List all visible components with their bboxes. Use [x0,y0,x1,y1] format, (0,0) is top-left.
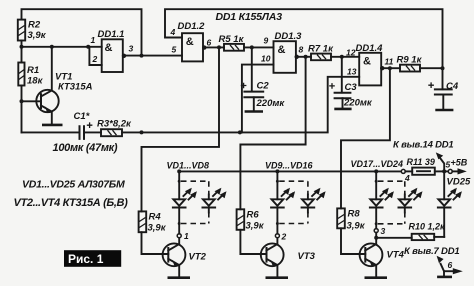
resistor R8 3,9к [337,208,366,231]
svg-text:2: 2 [92,54,98,64]
svg-text:3: 3 [129,44,134,54]
svg-text:8: 8 [299,45,304,55]
wire rail R3 to DD1.4 pin13 riser [122,77,359,133]
svg-text:9: 9 [264,36,269,46]
svg-text:1: 1 [91,35,96,45]
wire R7 to DD1.4 pin 12 [331,56,359,58]
svg-text:VT2: VT2 [189,252,207,263]
svg-text:R9 1к: R9 1к [397,54,423,65]
op-amp gate DD1.1 [98,29,127,72]
wire R8 bottom to VT4 base [341,228,365,254]
node VT1 base junction [20,99,24,103]
svg-text:11: 11 [385,57,394,67]
svg-text:К выв.7 DD1: К выв.7 DD1 [404,246,459,257]
LED group 1: VD1...VD8 [173,171,227,233]
wire R11 to +5V node [435,170,449,172]
svg-text:R6: R6 [247,210,260,221]
node R9 left junction [388,66,392,70]
capacitor C3 220мк [329,57,373,109]
resistor R1 [18,63,43,87]
wire stub to DD1.1 pin 2 [89,47,101,65]
svg-text:R7 1к: R7 1к [308,44,334,55]
svg-text:5: 5 [172,45,177,55]
op-amp gate DD1.4 [356,43,385,85]
wire LED bus [179,170,401,172]
svg-text:&: & [105,42,113,54]
node +5V junction [442,169,446,173]
svg-text:R11 39: R11 39 [407,157,435,167]
svg-text:3,9к: 3,9к [28,30,47,41]
wire top rail B: DD1.2 pin4 to C4 column [165,9,443,89]
resistor R7 1к [308,44,334,61]
transistor VT2 [163,238,207,278]
LED group 3: VD17...VD24 [370,171,423,228]
svg-text:3,9к: 3,9к [347,221,366,232]
wire R5 to DD1.3 pin 9 [244,46,274,48]
node junction R2/R1/base wire [20,45,24,49]
svg-text:&: & [278,44,286,56]
node R7 right junction / C3 top [340,55,344,59]
node bus group2 [275,169,279,173]
svg-text:1: 1 [184,231,189,241]
wire VT1 base [22,100,42,102]
svg-text:VT2...VT4 КТ315А (Б,В): VT2...VT4 КТ315А (Б,В) [14,197,129,209]
resistor R11 39 [405,157,435,175]
wire arrow to pin 14 DD1 [393,139,454,169]
svg-text:VD17...VD24: VD17...VD24 [351,159,404,169]
node 4 terminal circle [401,169,405,173]
node R10 junction [374,236,378,240]
node 3 terminal circle [374,229,378,233]
svg-text:DD1.3: DD1.3 [275,31,303,42]
svg-text:10: 10 [261,54,271,64]
transistor VT3 [261,238,316,278]
node C4 column junction [441,66,445,70]
LED group 2: VD9...VD16 [271,171,326,233]
resistor R6 3,9к [237,209,265,231]
node R7 left junction [304,55,308,59]
svg-text:4: 4 [170,27,176,37]
wire DD1.4 output to R9 [385,67,401,69]
wire node3 to collector [375,233,377,238]
svg-text:4: 4 [404,173,410,183]
svg-text:R8: R8 [348,209,361,220]
wire DD1.1 output to DD1.2 pin 5 [126,55,182,57]
svg-text:R2: R2 [28,20,41,31]
wire C1 to R3 [84,131,101,133]
svg-text:DD1.2: DD1.2 [178,21,206,32]
svg-text:C1*: C1* [74,111,91,122]
svg-text:3,9к: 3,9к [246,221,265,232]
node 1 terminal circle [177,234,181,238]
wire DD1.3 output to R7 [299,56,311,58]
node 6 common terminal with arrows and ground [437,256,463,277]
wire left column R1 bottom down to rail [21,86,23,133]
transistor VT1 КТ315А [36,47,92,124]
svg-text:3,9к: 3,9к [148,223,167,234]
node rail DD1.1 out column [140,130,144,134]
svg-text:DD1 К155ЛА3: DD1 К155ЛА3 [216,11,283,23]
LED VD25 [438,171,471,237]
node rail DD1.3 pin10 column [238,130,242,134]
capacitor C2 220мк [241,47,286,111]
svg-text:C2: C2 [257,81,270,92]
svg-text:R1: R1 [27,65,39,76]
ground VT2 [168,276,191,279]
svg-text:Рис. 1: Рис. 1 [68,252,104,266]
svg-text:R5 1к: R5 1к [219,34,245,45]
svg-text:+5В: +5В [451,158,468,168]
wire DD1.2 output to R5 [207,46,225,48]
svg-text:КТ315А: КТ315А [58,82,93,93]
resistor R9 1к [397,54,423,71]
svg-text:&: & [186,36,194,48]
svg-text:VD9...VD16: VD9...VD16 [265,161,314,171]
svg-text:6: 6 [207,38,212,48]
node bus group3 [374,169,378,173]
resistor R5 1к [219,34,245,51]
resistor R4 3,9к [139,211,167,233]
wire DD1.3 pin 10 jog down to rail [242,65,274,133]
svg-text:C4: C4 [446,81,459,92]
capacitor C1 100мк [74,111,93,139]
wire horizontal y=46.8 to DD1.1 inputs [22,46,102,48]
wire VT3 feed: DD1.3 out down, left, to R6 [240,57,305,210]
svg-text:C3: C3 [345,82,358,93]
resistor R2 [18,20,47,42]
node R5 left junction [217,45,221,49]
wire feedback top rail from R2 top to DD1.1 output column [22,9,142,55]
ground VT4 [365,276,388,279]
wire VT4 feed: DD1.4 out down, left, to R8 [341,68,390,208]
wire R2 bottom to R1 top [21,41,23,63]
wire R4 bottom to VT2 base [142,232,169,254]
svg-text:220мк: 220мк [343,98,373,109]
label +5В with arrow [451,158,468,175]
svg-text:&: & [363,56,371,68]
svg-text:6: 6 [448,260,453,270]
wire VT2 feed: DD1.2 out down, left, to R4 [142,47,220,211]
wire R9 to C4 column [420,67,443,69]
svg-text:VT3: VT3 [298,251,316,262]
wire rail left part to C1 [22,131,80,133]
transistor VT4 [360,240,405,278]
svg-text:R3*8,2к: R3*8,2к [97,119,132,130]
svg-text:220мк: 220мк [256,98,286,109]
svg-text:12: 12 [346,48,356,58]
svg-text:2: 2 [281,232,287,242]
svg-text:VD25: VD25 [447,177,471,188]
node VT1 collector junction [50,45,54,49]
svg-text:VD1...VD25 АЛ307БМ: VD1...VD25 АЛ307БМ [22,178,125,190]
resistor R3* 8,2к [97,119,132,137]
svg-text:VD1...VD8: VD1...VD8 [167,161,210,171]
resistor R10 1,2к [376,222,445,241]
wire R6 bottom to VT3 base [240,230,266,254]
node DD1.1 input junction [86,45,90,49]
svg-text:R4: R4 [149,212,162,223]
node DD1.1 output junction [140,54,144,58]
ground VT3 [266,276,289,279]
svg-text:К выв.14 DD1: К выв.14 DD1 [393,139,454,150]
capacitor C4 [428,81,459,110]
figure label Рис. 1 [64,250,121,267]
node R5 right junction / C2 top [250,45,254,49]
svg-text:R10 1,2к: R10 1,2к [409,222,446,232]
svg-text:3: 3 [381,226,386,236]
node bus group1 [177,169,181,173]
svg-text:100мк (47мк): 100мк (47мк) [53,142,118,154]
ground VT1 emitter [42,124,63,127]
svg-text:18к: 18к [27,76,44,87]
node 5 terminal circle [448,169,452,173]
svg-text:13: 13 [347,67,357,77]
op-amp gate DD1.3 [274,31,303,73]
op-amp gate DD1.2 [178,21,207,61]
svg-text:VT4: VT4 [387,250,405,261]
svg-text:DD1.4: DD1.4 [356,43,384,54]
node 2 terminal circle [275,234,279,238]
svg-text:DD1.1: DD1.1 [98,29,125,40]
